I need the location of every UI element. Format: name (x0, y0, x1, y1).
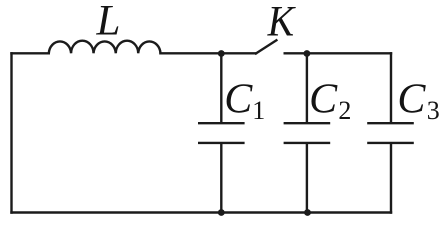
label C1 (224, 77, 265, 126)
wire: switch right contact to top-right corner (through node B) (285, 52, 391, 54)
inductor L (49, 41, 161, 54)
node A: junction L / C1 / switch (218, 50, 225, 57)
capacitor C1 (199, 53, 243, 212)
wire: left edge (10, 53, 12, 212)
capacitor C3 (368, 123, 412, 212)
svg-text:C: C (397, 77, 426, 123)
svg-text:K: K (267, 0, 297, 45)
svg-text:2: 2 (338, 96, 351, 125)
wire: inductor to switch (through node A) (161, 52, 256, 54)
wire: top-left segment (12, 52, 49, 54)
node D: bottom junction of C2 (304, 209, 311, 216)
wire: right edge top (corner to C3) (390, 53, 392, 122)
node C: bottom junction of C1 (218, 209, 225, 216)
capacitor C2 (285, 53, 329, 212)
svg-text:3: 3 (427, 96, 440, 125)
svg-text:L: L (96, 0, 121, 45)
node B: junction switch / C2 (304, 50, 311, 57)
svg-text:1: 1 (252, 96, 265, 125)
svg-text:C: C (309, 77, 338, 123)
label C2 (309, 77, 351, 126)
label C3 (397, 77, 439, 126)
svg-text:C: C (224, 77, 253, 123)
switch K blade (open) (256, 40, 277, 53)
wire: bottom (12, 211, 392, 213)
